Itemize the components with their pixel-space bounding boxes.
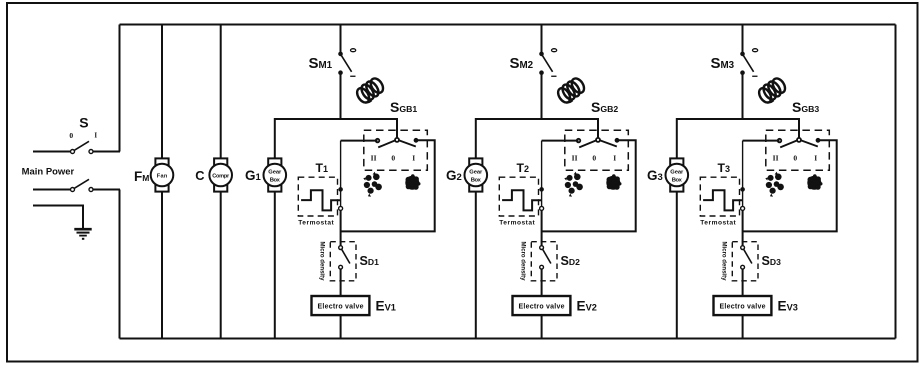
svg-text:Electro valve: Electro valve (519, 303, 565, 310)
svg-text:T3: T3 (718, 161, 730, 175)
svg-text:SD1: SD1 (360, 254, 380, 268)
svg-text:T2: T2 (517, 161, 529, 175)
svg-text:Micro density: Micro density (318, 242, 325, 282)
svg-text:SM1: SM1 (309, 55, 333, 72)
svg-text:Compr: Compr (212, 173, 230, 179)
svg-text:II: II (371, 154, 377, 163)
svg-text:Micro density: Micro density (519, 242, 526, 282)
svg-text:Termostat: Termostat (298, 220, 334, 227)
svg-text:I: I (613, 154, 616, 163)
svg-text:FM: FM (134, 169, 149, 184)
svg-text:SGB2: SGB2 (591, 99, 618, 115)
svg-text:0: 0 (69, 131, 73, 140)
svg-text:Gear: Gear (670, 170, 684, 176)
svg-text:I: I (94, 132, 97, 140)
svg-text:SM2: SM2 (510, 55, 534, 72)
svg-text:0: 0 (592, 154, 596, 163)
svg-text:0: 0 (793, 154, 797, 163)
svg-text:Box: Box (471, 178, 482, 184)
svg-text:SD2: SD2 (561, 254, 581, 268)
svg-text:Electro valve: Electro valve (318, 303, 364, 310)
svg-text:SGB3: SGB3 (792, 99, 819, 115)
svg-text:SM3: SM3 (711, 55, 735, 72)
svg-text:I: I (814, 154, 817, 163)
svg-text:EV2: EV2 (577, 299, 597, 314)
svg-text:SD3: SD3 (762, 254, 782, 268)
svg-text:I: I (412, 154, 415, 163)
svg-text:EV3: EV3 (778, 299, 798, 314)
svg-text:Electro valve: Electro valve (720, 303, 766, 310)
svg-text:Gear: Gear (268, 170, 282, 176)
svg-text:G1: G1 (245, 168, 262, 183)
svg-text:G2: G2 (446, 168, 462, 183)
svg-text:EV1: EV1 (376, 299, 396, 314)
svg-text:Fan: Fan (157, 173, 168, 179)
svg-text:T1: T1 (316, 161, 328, 175)
svg-text:C: C (195, 168, 204, 183)
svg-text:II: II (572, 154, 578, 163)
svg-text:Gear: Gear (469, 170, 483, 176)
svg-text:Termostat: Termostat (499, 220, 535, 227)
svg-text:II: II (773, 154, 779, 163)
svg-text:S: S (79, 115, 88, 131)
svg-text:SGB1: SGB1 (390, 99, 417, 115)
svg-text:Micro density: Micro density (720, 242, 727, 282)
svg-text:0: 0 (391, 154, 395, 163)
svg-text:Box: Box (672, 178, 683, 184)
svg-text:Box: Box (270, 178, 281, 184)
svg-text:Termostat: Termostat (700, 220, 736, 227)
svg-text:Main Power: Main Power (22, 167, 75, 177)
svg-text:G3: G3 (647, 168, 663, 183)
